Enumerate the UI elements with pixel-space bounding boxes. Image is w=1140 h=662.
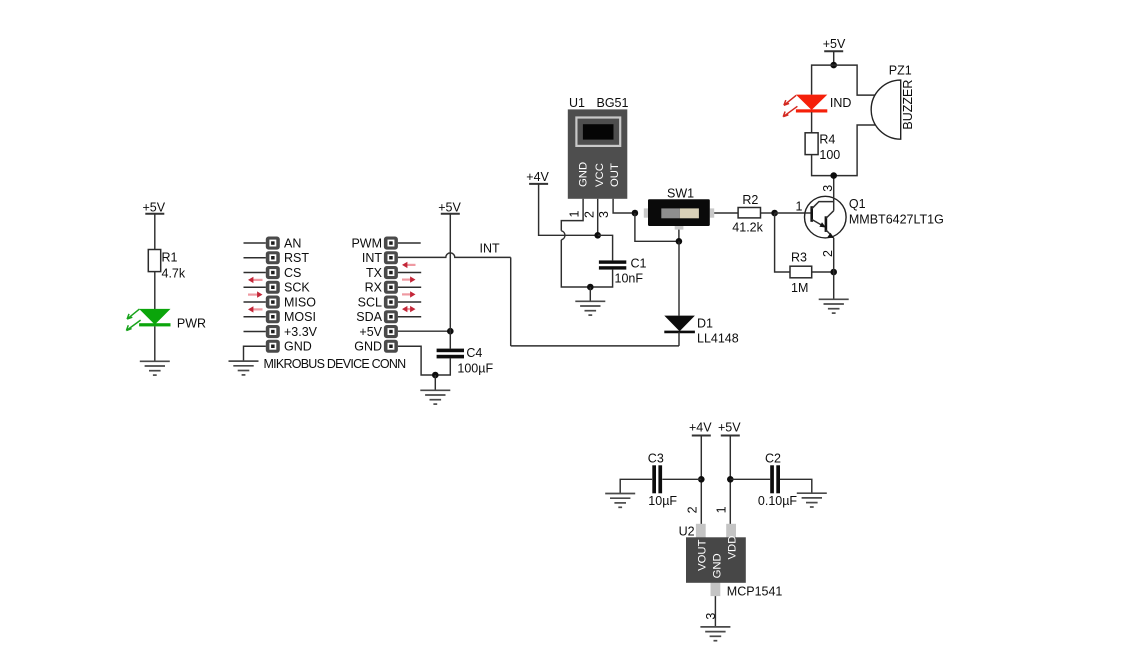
svg-text:MIKROBUS DEVICE CONN: MIKROBUS DEVICE CONN [264,357,407,371]
svg-text:GND: GND [578,162,590,187]
wire rail C2 right to ground [780,479,812,493]
svg-text:IND: IND [830,96,852,110]
wire U1 pin1 down-left [561,199,583,231]
power +4V (U1) [526,170,549,184]
arrow out (SCL) [402,291,416,297]
svg-text:+3.3V: +3.3V [284,325,318,339]
node +4V rail junction [698,476,705,483]
node base junction (R2/R3) [771,210,778,217]
svg-text:GND: GND [284,340,312,354]
wire down to D1 anode [678,241,680,315]
svg-text:TX: TX [366,266,383,280]
diode D1 LL4148 [664,316,738,346]
IC U1 BG51 [568,96,629,199]
wire MOSI stub [244,316,266,318]
svg-text:U2: U2 [679,524,695,538]
arrow in (MOSI) [248,306,263,312]
ground (C2) [797,493,827,507]
wire SDA stub [398,316,421,318]
transistor Q1 MMBT6427LT1G (darlington) [805,176,944,272]
svg-text:D1: D1 [697,316,713,330]
svg-text:VOUT: VOUT [697,539,709,570]
LED IND (red) [783,95,851,117]
svg-text:2: 2 [686,506,700,513]
svg-text:+4V: +4V [526,170,549,184]
LED PWR (green) [126,309,206,331]
wire SCK stub [244,286,266,288]
node SW1 bottom junction [676,238,683,245]
buzzer PZ1 [871,64,915,140]
wire INT from header with hop over +5V [398,253,511,257]
wire SW1 right to R2 [714,212,738,214]
capacitor C4 [437,346,494,375]
svg-text:2: 2 [821,250,835,257]
power +5V (top right) [823,37,846,51]
wire U1 pin2 down [597,199,599,236]
switch SW1 [644,186,714,229]
node C4 ground junction [432,372,439,379]
wire SW1 left down to bottom nub rail [635,213,679,241]
svg-text:10µF: 10µF [648,494,677,508]
wire +4V down to VOUT stub [700,436,702,525]
ground (mikrobus) [229,361,259,375]
svg-text:Q1: Q1 [849,197,866,211]
wire TX stub [398,272,421,274]
resistor R1 [148,250,186,281]
svg-text:INT: INT [480,242,501,256]
svg-text:VCC: VCC [594,163,606,187]
ground (C4) [420,390,450,404]
svg-text:SCL: SCL [358,295,382,309]
wire junction to ground stub [589,287,591,301]
wire RX stub [398,286,421,288]
ground (PWR branch) [140,361,170,375]
svg-text:MMBT6427LT1G: MMBT6427LT1G [849,213,944,227]
resistor R4 [805,132,840,162]
connector J2 MIKROBUS DEVICE CONN right header [351,236,397,353]
ground (U2) [700,627,730,641]
resistor R3 [790,251,812,295]
power +5V (R1 branch) [143,200,166,214]
svg-text:PWR: PWR [177,317,206,331]
power +5V (bottom) [718,420,741,435]
wire R4 down to collector node [812,155,834,176]
wire pin1 continues to bottom rail [561,240,590,287]
wire base node to Q1 [775,212,805,214]
wire hop (pin1 over +4V wire) [561,231,565,240]
svg-text:R2: R2 [742,193,758,207]
svg-text:GND: GND [712,553,724,578]
svg-text:VDD: VDD [727,536,739,560]
wire +5V down to VDD stub [729,436,731,525]
svg-text:MCP1541: MCP1541 [727,584,783,598]
svg-text:AN: AN [284,236,301,250]
node +5V top junction [830,62,837,69]
ground (Q1) [819,299,849,313]
svg-text:SCK: SCK [284,281,310,295]
svg-text:41.2k: 41.2k [732,221,763,235]
svg-text:+5V: +5V [823,37,846,51]
svg-text:RST: RST [284,251,309,265]
capacitor C2 [758,452,798,509]
wire PWM stub [398,242,421,244]
svg-text:C2: C2 [765,452,781,466]
wire R2 right to base node [761,212,775,214]
svg-text:INT: INT [362,251,383,265]
svg-text:GND: GND [354,340,382,354]
node +5V/C4 junction [447,328,454,335]
wire C4 bottom to junction [435,358,450,375]
svg-text:+5V: +5V [718,420,741,434]
svg-text:10nF: 10nF [615,272,644,286]
svg-text:LL4148: LL4148 [697,331,739,345]
wire +4V down and right to VCC node [539,184,598,235]
ground (C3) [605,494,635,508]
svg-text:PZ1: PZ1 [889,64,912,78]
wire buzzer bottom to collector node [834,125,876,176]
svg-text:3: 3 [821,185,835,192]
svg-text:SW1: SW1 [667,186,694,200]
svg-text:CS: CS [284,266,301,280]
wire +5V to R1 [154,214,156,250]
wire emitter node down to ground [833,272,835,299]
wire base node down to R3 [775,213,790,272]
arrow out (MISO) [248,291,263,297]
node collector junction [830,172,837,179]
wire U2 GND pin down [714,596,716,627]
svg-text:R1: R1 [162,250,178,264]
svg-text:+4V: +4V [689,420,712,434]
wire VCC node to C1 top [598,235,613,260]
wire rail C3 right [662,478,701,480]
wire GND row down to C4 node [398,346,435,375]
power +4V (bottom) [689,420,712,435]
svg-text:4.7k: 4.7k [162,266,186,280]
svg-text:0.10µF: 0.10µF [758,494,798,508]
svg-text:100: 100 [819,148,840,162]
svg-text:3: 3 [597,211,611,218]
svg-text:C1: C1 [631,256,647,270]
node +5V rail junction [727,476,734,483]
svg-text:C4: C4 [466,346,482,360]
wire R3 to emitter node [812,271,834,273]
wire SW1 bottom nub down [678,230,680,242]
svg-text:100µF: 100µF [457,361,493,375]
svg-text:MISO: MISO [284,295,316,309]
IC U2 MCP1541 [679,524,783,599]
ground (C1) [575,301,605,315]
wire +5V row to vertical [398,330,450,332]
wire GND row to ground [244,346,266,361]
wire MISO stub [244,301,266,303]
wire rail C2 left [730,478,770,480]
wire C1 bottom to rail [590,270,612,287]
wire +5V down to node [833,51,835,65]
wire R1 to LED PWR [154,272,156,309]
svg-text:RX: RX [365,281,383,295]
arrow in (SCK) [248,277,263,283]
svg-text:SDA: SDA [356,310,382,324]
svg-text:+5V: +5V [359,325,382,339]
svg-text:3: 3 [704,613,718,620]
wire node to buzzer top [834,65,876,95]
wire RST stub [244,257,266,259]
wire INT down [510,257,512,346]
wire D1 cathode down to INT run [678,332,680,346]
svg-text:BG51: BG51 [597,96,629,110]
svg-text:R3: R3 [791,251,807,265]
wire AN stub [244,242,266,244]
svg-text:+5V: +5V [143,200,166,214]
svg-text:1: 1 [568,211,582,218]
wire LED to R4 [811,112,813,133]
svg-text:2: 2 [583,211,597,218]
svg-text:1: 1 [796,199,803,213]
node SW1 left junction [632,210,639,217]
node C1 ground junction [587,284,594,291]
arrow out (RX) [402,276,416,282]
wire INT bottom run to D1 [511,345,679,347]
wire node to LED branch [812,65,834,95]
wire +5V vertical down to C4 [449,214,451,349]
svg-text:1: 1 [715,506,729,513]
connector J1 MIKROBUS DEVICE CONN left header [266,236,318,353]
wire LED to ground [154,326,156,361]
wire SCL stub [398,301,421,303]
node emitter junction [830,269,837,276]
wire CS stub [244,272,266,274]
resistor R2 [732,193,763,235]
arrow bidir (SDA) [402,306,416,312]
svg-text:BUZZER: BUZZER [901,80,915,130]
wire rail C3 left to ground [620,479,652,493]
svg-text:C3: C3 [648,452,664,466]
node VCC junction [594,232,601,239]
svg-text:U1: U1 [569,96,585,110]
capacitor C1 [599,256,647,285]
svg-text:MOSI: MOSI [284,310,316,324]
wire +3.3V stub [244,331,266,333]
arrow in (TX) [402,262,416,268]
power +5V (middle) [438,200,461,214]
wire junction to ground [434,375,436,390]
svg-text:OUT: OUT [609,163,621,187]
wire U1 pin3 to SW1 [613,199,632,213]
svg-text:R4: R4 [819,132,835,146]
svg-text:1M: 1M [791,281,808,295]
capacitor C3 [648,452,678,509]
svg-text:+5V: +5V [438,200,461,214]
svg-text:PWM: PWM [351,236,382,250]
